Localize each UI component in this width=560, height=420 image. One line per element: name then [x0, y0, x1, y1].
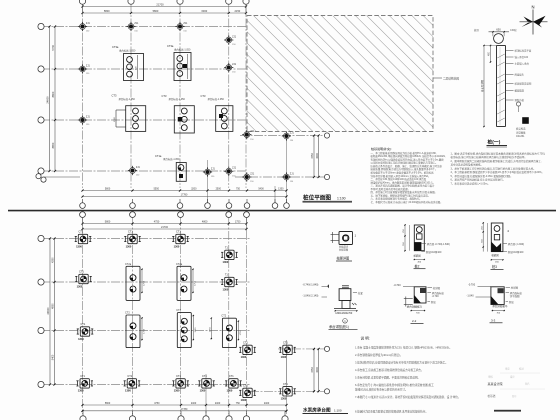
svg-text:3、承台下桩基施工完毕并检测合格后,方可进行承台施工,桩头处: 3、承台下桩基施工完毕并检测合格后,方可进行承台施工,桩头处理详见大样。: [451, 166, 536, 170]
plan2 vertical grid lines: [83, 217, 287, 414]
svg-text:螺旋箍筋: 螺旋箍筋: [515, 89, 525, 93]
pile elevation body: [497, 46, 506, 127]
svg-text:C30砼: C30砼: [510, 28, 517, 32]
svg-text:2400: 2400: [264, 402, 270, 405]
svg-text:1300: 1300: [281, 397, 287, 401]
svg-text:CT1: CT1: [80, 375, 85, 378]
svg-text:CT1: CT1: [283, 342, 288, 345]
svg-text:柱详图: 柱详图: [511, 286, 519, 290]
plan1 bottom dimension lines: [81, 188, 287, 198]
svg-text:3.基坑(槽)开挖后,应会同勘察设计等有关单位共同验槽后方可: 3.基坑(槽)开挖后,应会同勘察设计等有关单位共同验槽后方可进行下道工序施工。: [355, 361, 448, 365]
svg-text:桩基说明(补充):: 桩基说明(补充):: [371, 146, 392, 151]
svg-text:-1.040: -1.040: [467, 294, 475, 297]
svg-text:1750: 1750: [195, 280, 197, 286]
svg-text:8800: 8800: [51, 91, 55, 97]
svg-text:其余详见总说明及相关图纸。: 其余详见总说明及相关图纸。: [451, 163, 484, 167]
svg-text:预制方桩: 预制方桩: [515, 98, 525, 102]
svg-text:桩位平面图: 桩位平面图: [303, 193, 331, 201]
svg-text:垫层C10厚100: 垫层C10厚100: [508, 250, 524, 254]
svg-text:CT1: CT1: [128, 231, 133, 234]
plan2 left axis bubbles: [38, 235, 44, 387]
svg-text:04G361: 04G361: [516, 135, 525, 138]
title block fragment: [488, 367, 546, 412]
svg-text:1300: 1300: [241, 355, 247, 359]
svg-text:CT1: CT1: [79, 231, 84, 234]
general notes 说明: [355, 336, 460, 414]
pile cap CT3 row3 left: [112, 94, 146, 132]
svg-text:3000: 3000: [316, 367, 319, 373]
svg-text:1300: 1300: [125, 389, 131, 393]
construction boundary hatch region: [247, 16, 433, 132]
plan1 right axis bubbles: [324, 133, 329, 180]
svg-text:承台标高-1.050: 承台标高-1.050: [119, 48, 136, 52]
svg-text:5800: 5800: [105, 221, 111, 224]
svg-text:某某设计院: 某某设计院: [488, 381, 503, 386]
plan2 horizontal grid lines: [41, 239, 327, 392]
svg-text:1300: 1300: [174, 244, 180, 248]
svg-text:1300: 1300: [126, 244, 132, 248]
svg-text:1300: 1300: [76, 244, 82, 248]
svg-text:5400: 5400: [52, 354, 55, 360]
plan1 left axis bubbles: [36, 23, 46, 182]
svg-text:17780: 17780: [181, 194, 188, 197]
pile notes left column: [371, 146, 447, 204]
svg-text:桩3: 桩3: [492, 264, 497, 269]
column detail 1: [331, 232, 357, 252]
svg-text:CT1: CT1: [79, 271, 84, 274]
svg-text:ZJ1: ZJ1: [136, 166, 141, 169]
svg-text:-0.700: -0.700: [394, 284, 402, 287]
svg-text:4.承台施工,应先施工桩基,待桩基检测合格后方可施工承台。: 4.承台施工,应先施工桩基,待桩基检测合格后方可施工承台。: [355, 368, 423, 372]
svg-text:CT3: CT3: [112, 94, 117, 98]
svg-text:1750: 1750: [144, 328, 146, 334]
svg-text:桩顶标高,施工时先施工桩基再开挖承台基坑,注意保护桩头不受损: 桩顶标高,施工时先施工桩基再开挖承台基坑,注意保护桩头不受损坏。: [451, 155, 527, 159]
svg-text:主筋锚入承台: 主筋锚入承台: [515, 62, 530, 66]
svg-text:CT1: CT1: [81, 323, 86, 326]
svg-text:ZJ1: ZJ1: [250, 172, 255, 175]
svg-text:6、基坑开挖严禁扰动桩身,挖土宜分层对称进行。: 6、基坑开挖严禁扰动桩身,挖土宜分层对称进行。: [451, 178, 506, 182]
svg-text:桩嵌固: 桩嵌固: [492, 253, 500, 257]
svg-text:5750: 5750: [51, 44, 55, 50]
svg-text:24600: 24600: [46, 96, 50, 104]
svg-text:拉梁: 拉梁: [358, 291, 363, 295]
svg-text:1750: 1750: [144, 280, 146, 286]
svg-text:锚入承台100: 锚入承台100: [515, 55, 529, 59]
plan1 top axis bubbles 1-5: [79, 0, 249, 4]
svg-text:1500: 1500: [114, 116, 116, 122]
svg-text:ZJ1: ZJ1: [134, 22, 139, 25]
svg-text:桩身配筋见说明: 桩身配筋见说明: [515, 82, 532, 86]
svg-text:ZJ1: ZJ1: [232, 167, 237, 170]
pile elevation right leader notes: [506, 49, 532, 103]
plan2 bottom dimension lines: [81, 402, 287, 412]
svg-text:2400: 2400: [215, 402, 221, 405]
svg-text:桩(一): 桩(一): [488, 139, 501, 146]
svg-text:4800: 4800: [202, 221, 208, 224]
svg-text:桩长见说明: 桩长见说明: [480, 79, 484, 92]
svg-text:1300: 1300: [77, 284, 83, 288]
foundation detail D caption: [329, 319, 358, 330]
svg-text:承台标高-1.050: 承台标高-1.050: [174, 47, 191, 51]
plan1 top dimension lines: [81, 3, 247, 15]
plan2 row4 caps: [76, 375, 255, 402]
pile notes right column: [451, 151, 546, 185]
svg-text:-0.700: -0.700: [468, 284, 476, 287]
svg-text:桩嵌固: 桩嵌固: [414, 253, 422, 257]
pile cap section detail 2: [403, 224, 450, 268]
svg-text:七、本图尺寸以毫米计,标高以米计,±0.000相当于绝对标高: 七、本图尺寸以毫米计,标高以米计,±0.000相当于绝对标高详总图。: [371, 200, 443, 204]
svg-text:ZJ1: ZJ1: [86, 64, 91, 67]
svg-text:详平面图: 详平面图: [510, 294, 520, 298]
svg-text:承台标高-1.050: 承台标高-1.050: [163, 157, 180, 161]
svg-text:7、未尽事宜详见总说明,L=1.05m。: 7、未尽事宜详见总说明,L=1.05m。: [451, 181, 490, 185]
svg-text:承台顶 (-1.840): 承台顶 (-1.840): [508, 242, 524, 246]
hatch region leader label: [433, 76, 459, 80]
svg-text:1350: 1350: [278, 188, 284, 191]
svg-text:2、图中阴影范围为二层裙房结构范围,相邻桩施工完成后 方可: 2、图中阴影范围为二层裙房结构范围,相邻桩施工完成后 方可进行该范围承台施工,: [451, 159, 542, 163]
pile cap CT3a at axis C row2: [167, 44, 191, 80]
svg-text:24600: 24600: [47, 307, 50, 315]
svg-text:CT1: CT1: [283, 383, 288, 386]
svg-text:ZJ1: ZJ1: [183, 22, 188, 25]
plan1 left dimension lines: [46, 25, 56, 172]
svg-text:1300: 1300: [174, 389, 180, 393]
plan2 row3 caps: [77, 309, 256, 359]
svg-text:桩基础: 桩基础: [488, 394, 496, 398]
svg-text:CT1a: CT1a: [155, 154, 162, 158]
svg-text:1750: 1750: [240, 330, 242, 336]
svg-text:750: 750: [236, 402, 241, 405]
plan1 caption 桩位平面图: [303, 193, 353, 202]
svg-text:柱详图: 柱详图: [433, 286, 441, 290]
pile cap CT3 row3 right: [201, 94, 233, 131]
svg-text:3750: 3750: [311, 153, 314, 159]
pump room fragment caps: [279, 342, 296, 401]
svg-text:2500: 2500: [216, 188, 222, 191]
svg-text:6.承台定位尺寸,均以轴线为基准居中(除注明外),桩位详见桩: 6.承台定位尺寸,均以轴线为基准居中(除注明外),桩位详见桩位图,施工: [355, 383, 434, 387]
svg-text:5800: 5800: [105, 188, 111, 191]
svg-text:放线时,应认真校对各承台与桩位的关系尺寸。: 放线时,应认真校对各承台与桩位的关系尺寸。: [355, 388, 408, 392]
plan2 row1 pile caps CT1: [75, 231, 189, 249]
svg-text:4、本工程桩基检测:静载试验不少于总桩数1%,且不少于3根;: 4、本工程桩基检测:静载试验不少于总桩数1%,且不少于3根;低应变检测不少于20…: [451, 170, 544, 174]
pile detail plan circle 650: [474, 28, 517, 44]
pile toe detail and ref circle: [516, 102, 529, 138]
svg-text:垫层: 垫层: [509, 300, 514, 304]
pump room fragment caption: [303, 407, 349, 414]
svg-text:CT1: CT1: [176, 231, 181, 234]
foundation section detail D: [303, 284, 364, 315]
svg-text:3750: 3750: [311, 367, 314, 373]
svg-text:-0.740(-1.840): -0.740(-1.840): [303, 284, 319, 287]
svg-text:校对: 校对: [519, 367, 524, 371]
svg-text:5550: 5550: [154, 188, 160, 191]
svg-text:CT3a: CT3a: [167, 44, 174, 48]
plan2 top axis bubbles: [80, 212, 250, 218]
svg-text:CT2a: CT2a: [176, 263, 183, 266]
svg-text:CT2a: CT2a: [125, 263, 132, 266]
svg-text:1:100: 1:100: [334, 409, 342, 413]
svg-text:4750: 4750: [154, 402, 160, 405]
svg-text:CT1: CT1: [202, 375, 207, 378]
svg-text:CT1: CT1: [243, 385, 248, 388]
svg-text:CT1: CT1: [127, 375, 132, 378]
svg-text:N: N: [531, 4, 534, 9]
svg-text:说 明:: 说 明:: [361, 336, 370, 341]
foundation section detail F: [467, 284, 523, 315]
svg-text:ZJ1: ZJ1: [290, 172, 295, 175]
svg-text:2150: 2150: [234, 9, 240, 13]
svg-text:1300x1300x700: 1300x1300x700: [335, 312, 353, 315]
svg-text:详见图集: 详见图集: [516, 130, 526, 134]
svg-text:1750: 1750: [195, 327, 197, 333]
svg-text:5800: 5800: [153, 9, 159, 13]
svg-text:CT3a: CT3a: [112, 45, 119, 49]
svg-text:承台详图(桩2): 承台详图(桩2): [407, 305, 422, 309]
svg-text:5400: 5400: [258, 188, 264, 191]
plan2 top dimension lines: [81, 217, 247, 231]
svg-text:750: 750: [236, 188, 241, 191]
foundation detail F caption: [490, 318, 503, 322]
svg-text:5800: 5800: [105, 402, 111, 405]
svg-text:CT1: CT1: [229, 375, 234, 378]
pile cap section detail 3: [481, 222, 524, 269]
svg-text:4850: 4850: [52, 303, 55, 309]
pile cap CT3a at axis B row2: [112, 45, 144, 80]
svg-text:1750: 1750: [235, 221, 241, 224]
svg-text:5800: 5800: [104, 9, 110, 13]
plan1 right extension dimension: [311, 134, 319, 178]
plan1 bottom axis bubbles: [80, 199, 290, 208]
svg-text:1300: 1300: [281, 355, 287, 359]
plan1 horizontal grid lines: [41, 27, 327, 178]
svg-text:设计: 设计: [510, 375, 515, 379]
svg-text:桩顶: 桩顶: [474, 28, 479, 32]
plan2 row3 left dim bracket: [210, 318, 212, 340]
svg-text:ZJ1: ZJ1: [211, 167, 216, 170]
svg-text:1300: 1300: [223, 260, 229, 264]
foundation section detail E: [394, 284, 445, 315]
svg-text:柱脚详图: 柱脚详图: [337, 256, 350, 261]
sheet divider line: [8, 210, 556, 212]
svg-text:5.承台间拉梁,详见拉梁平面图。平面未注明者详见说明。: 5.承台间拉梁,详见拉梁平面图。平面未注明者详见说明。: [355, 376, 420, 380]
svg-text:650: 650: [496, 28, 501, 32]
svg-text:3000: 3000: [316, 153, 319, 159]
foundation detail E caption: [411, 319, 424, 323]
svg-text:桩顶标高见平面: 桩顶标高见平面: [515, 49, 532, 53]
svg-text:2400: 2400: [191, 402, 197, 405]
svg-text:1300: 1300: [78, 389, 84, 393]
svg-text:1:100: 1:100: [337, 196, 346, 200]
svg-text:水泵房承台图: 水泵房承台图: [303, 407, 331, 414]
svg-text:1300: 1300: [223, 287, 229, 291]
svg-text:3-3: 3-3: [491, 318, 496, 322]
svg-text:审核: 审核: [488, 375, 493, 379]
svg-text:ZJ1: ZJ1: [86, 115, 91, 118]
svg-text:1750: 1750: [210, 326, 212, 332]
svg-text:承台标高-1.050: 承台标高-1.050: [169, 97, 186, 101]
plan1 single pile symbols: [78, 22, 295, 183]
svg-text:1300: 1300: [78, 337, 84, 341]
svg-text:5、承台间设拉梁,拉梁配筋详见-0.05m 梁配筋图(另图): 5、承台间设拉梁,拉梁配筋详见-0.05m 梁配筋图(另图)。: [451, 174, 513, 178]
pile cap CT3 row3 middle: [162, 94, 195, 133]
svg-text:承台顶 -0.740(-1.840): 承台顶 -0.740(-1.840): [427, 242, 450, 246]
svg-text:垫层C10厚100: 垫层C10厚100: [426, 250, 442, 254]
svg-text:ZJ1: ZJ1: [232, 35, 237, 38]
svg-text:-1.040(-2.140): -1.040(-2.140): [303, 294, 319, 297]
svg-text:1300: 1300: [227, 389, 233, 393]
pile detail caption 桩(一): [487, 139, 508, 147]
svg-text:8.基础持力层承载力要求详见桩位图说明,未尽事宜按规范执行。: 8.基础持力层承载力要求详见桩位图说明,未尽事宜按规范执行。: [355, 409, 428, 413]
svg-text:垫层: 垫层: [431, 300, 436, 304]
plan2 right column caps: [221, 247, 238, 292]
svg-text:17780: 17780: [181, 408, 188, 411]
svg-text:2.承台钢筋保护层厚度为40mm(有垫层)。: 2.承台钢筋保护层厚度为40mm(有垫层)。: [355, 353, 402, 357]
svg-text:6300: 6300: [201, 9, 207, 13]
svg-text:承台详图(桩1): 承台详图(桩1): [329, 324, 349, 329]
svg-text:8850: 8850: [51, 142, 55, 148]
svg-text:1300: 1300: [241, 398, 247, 402]
svg-text:CT1: CT1: [176, 375, 181, 378]
pile cap CT1a row4: [155, 154, 186, 181]
svg-text:承台标高-1.050: 承台标高-1.050: [119, 97, 136, 101]
svg-text:CT3: CT3: [176, 309, 181, 312]
svg-text:1、图中 表示单桩位置,承台及桩顶标高详见本图各详图(未注: 1、图中 表示单桩位置,承台及桩顶标高详见本图各详图(未注明者承台顶标高为-0.…: [451, 151, 546, 155]
svg-text:1.承台 混凝土强度等级除注明外均为C30, 垫层C10,: 1.承台 混凝土强度等级除注明外均为C30, 垫层C10, 钢筋HPB235(Φ…: [355, 346, 452, 350]
north arrow: [520, 4, 548, 34]
svg-text:7.本图尺寸,以毫米计;标高以米计。基坑开挖时如发现异常情况: 7.本图尺寸,以毫米计;标高以米计。基坑开挖时如发现异常情况请及时通知勘察、设 …: [355, 395, 460, 399]
column detail 1 caption: [336, 256, 352, 262]
svg-text:CT1: CT1: [243, 342, 248, 345]
svg-text:ZJ1: ZJ1: [86, 22, 91, 25]
svg-text:桩2: 桩2: [415, 263, 420, 268]
svg-text:CT3: CT3: [201, 94, 206, 98]
svg-text:审定: 审定: [505, 367, 510, 371]
svg-text:21700: 21700: [156, 3, 164, 7]
plan2 fragment vertical dimension: [311, 348, 319, 393]
svg-text:2-2: 2-2: [412, 319, 417, 323]
svg-text:焊接接头: 焊接接头: [515, 73, 525, 77]
svg-text:二层结构范围: 二层结构范围: [443, 76, 459, 80]
plan2 right axis bubbles: [324, 346, 329, 394]
plan2 left dimension lines: [47, 237, 55, 385]
svg-text:桩尖构造: 桩尖构造: [516, 127, 526, 131]
svg-text:CT3: CT3: [162, 94, 167, 98]
svg-text:承台标高-1.050: 承台标高-1.050: [208, 97, 225, 101]
plan2 bottom axis bubbles: [80, 411, 288, 420]
svg-text:4350: 4350: [52, 257, 55, 263]
svg-text:4750: 4750: [154, 221, 160, 224]
plan2 row2 caps: [75, 263, 196, 301]
svg-text:CT2: CT2: [221, 315, 226, 318]
svg-text:-0.700: -0.700: [432, 295, 439, 298]
pile elevation left dimensions: [480, 45, 496, 127]
svg-text:CT2: CT2: [125, 312, 130, 315]
svg-text:3200: 3200: [191, 188, 197, 191]
svg-text:ZJ1: ZJ1: [232, 63, 237, 66]
plan1 vertical grid lines: [83, 5, 287, 204]
svg-text:21700: 21700: [161, 226, 169, 229]
svg-text:承台详图(桩3): 承台详图(桩3): [492, 304, 507, 308]
svg-text:1300: 1300: [200, 389, 206, 393]
